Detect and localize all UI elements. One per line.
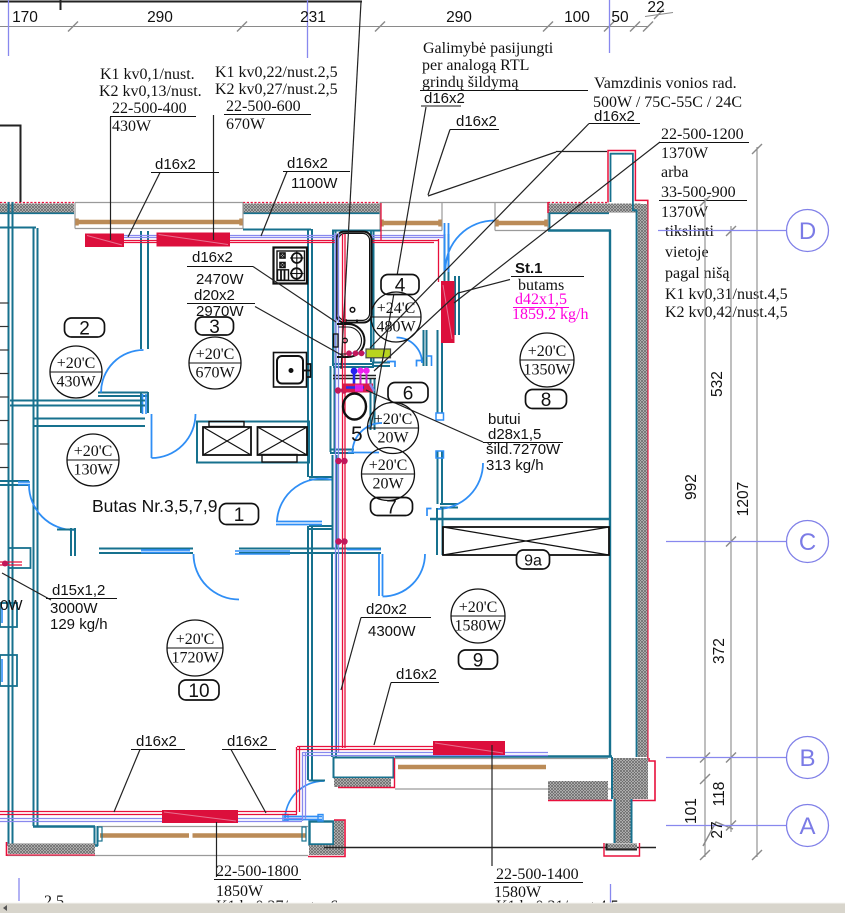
svg-text:K2 kv0,27/nust.2,5: K2 kv0,27/nust.2,5 <box>215 81 338 98</box>
annotation butui <box>486 411 561 474</box>
bottom-right corner block <box>612 758 648 799</box>
room box 9 <box>459 650 498 669</box>
svg-text:C: C <box>799 529 816 556</box>
wc top black lines <box>333 375 376 377</box>
long black line bottom <box>324 847 656 849</box>
svg-text:1859.2 kg/h: 1859.2 kg/h <box>512 306 588 323</box>
svg-text:22-500-600: 22-500-600 <box>226 98 301 115</box>
kitchen sink <box>274 353 311 388</box>
annotation right column <box>661 126 788 321</box>
room8 top inner face <box>548 229 611 231</box>
mid wall right glazing <box>347 549 381 551</box>
svg-text:670W: 670W <box>195 365 235 382</box>
9a crossed box <box>443 527 609 555</box>
corridor entry door (double) <box>151 414 153 458</box>
top wall inner face left <box>0 227 36 229</box>
bottom-right window band <box>395 758 608 760</box>
grid bubble C <box>787 521 829 563</box>
mid wall glazing <box>141 549 190 551</box>
grid bubble lines <box>658 231 786 826</box>
room box 7 <box>371 498 413 516</box>
left edge niches <box>9 548 31 568</box>
svg-text:pagal nišą: pagal nišą <box>665 265 730 282</box>
grid bubble B <box>787 737 829 779</box>
svg-text:290: 290 <box>446 9 472 26</box>
svg-text:grindų šildymą: grindų šildymą <box>422 74 519 91</box>
pipes: bottom runs <box>0 747 505 815</box>
svg-text:1370W: 1370W <box>661 204 709 221</box>
stair treads <box>0 303 9 468</box>
balcony door arc <box>446 221 495 270</box>
svg-text:670W: 670W <box>226 116 266 133</box>
130W room door wall stub <box>0 480 29 482</box>
bottom-left hatch pier <box>8 844 95 855</box>
svg-text:1350W: 1350W <box>523 362 571 379</box>
svg-text:8: 8 <box>541 390 552 411</box>
svg-text:5: 5 <box>351 423 363 446</box>
svg-text:Galimybė pasijungti: Galimybė pasijungti <box>423 40 554 57</box>
corner tip <box>606 844 637 850</box>
svg-text:d16x2: d16x2 <box>227 733 268 750</box>
svg-text:2: 2 <box>79 318 90 339</box>
svg-text:+20'C: +20'C <box>528 343 567 360</box>
pipe junction dots <box>335 387 348 544</box>
bath/wc divider <box>333 363 374 365</box>
grid stub lines top <box>9 0 610 58</box>
svg-text:K1 kv0,1/nust.: K1 kv0,1/nust. <box>100 66 195 83</box>
svg-text:9: 9 <box>473 650 484 671</box>
svg-text:d20x2: d20x2 <box>366 601 407 618</box>
svg-text:430W: 430W <box>56 374 96 391</box>
bottom door (blue) <box>284 816 322 818</box>
X-box frame <box>197 422 309 463</box>
scrollbar strip <box>0 903 845 913</box>
room box 1 <box>220 504 259 525</box>
room4 bottom wall <box>372 362 390 364</box>
svg-text:231: 231 <box>300 9 326 26</box>
130W room door arc <box>29 485 74 530</box>
svg-text:372: 372 <box>711 638 728 664</box>
mid horizontal wall right <box>311 548 381 550</box>
svg-text:1720W: 1720W <box>171 650 219 667</box>
svg-text:d15x1,2: d15x1,2 <box>52 582 105 599</box>
svg-text:118: 118 <box>711 782 728 807</box>
closet X box 2 <box>258 427 308 455</box>
temp circle 1580W <box>451 589 505 643</box>
svg-text:A: A <box>799 813 815 840</box>
svg-text:K2 kv0,42/nust.4,5: K2 kv0,42/nust.4,5 <box>665 304 788 321</box>
svg-text:d16x2: d16x2 <box>456 113 497 130</box>
room7 door arc <box>437 463 483 509</box>
top dimension numbers <box>12 0 665 26</box>
svg-text:101: 101 <box>683 798 700 824</box>
wc cistern (crimson) <box>343 384 373 393</box>
svg-text:33-500-900: 33-500-900 <box>661 184 736 201</box>
svg-text:arba: arba <box>661 164 689 181</box>
svg-text:9a: 9a <box>524 552 542 569</box>
svg-text:22-500-1800: 22-500-1800 <box>216 863 299 880</box>
corridor door threshold (blue) <box>276 521 322 523</box>
top-left black corner leader <box>0 126 21 203</box>
window W1 top-left <box>75 202 243 204</box>
bottom step block <box>310 822 334 845</box>
svg-text:+20'C: +20'C <box>57 355 96 372</box>
svg-text:St.1: St.1 <box>515 260 543 277</box>
shaft/bath left wall <box>332 230 334 366</box>
radiator 22-500-600 <box>157 233 231 247</box>
svg-text:22-500-1200: 22-500-1200 <box>661 126 744 143</box>
closet stub room10 <box>57 529 75 531</box>
bottom blue stubs <box>18 878 20 901</box>
svg-text:d16x2: d16x2 <box>424 90 465 107</box>
room box 8 <box>526 390 567 409</box>
annotation block K1/K2 left <box>99 66 202 135</box>
svg-text:313 kg/h: 313 kg/h <box>486 457 544 474</box>
9a closet left wall <box>436 508 438 555</box>
svg-text:K1 kv0,22/nust.2,5: K1 kv0,22/nust.2,5 <box>215 64 338 81</box>
pipes over bathtub <box>336 233 339 322</box>
temp circle 670W <box>189 337 241 389</box>
top dimension chain <box>0 26 648 28</box>
room box 3 <box>196 317 234 335</box>
corridor niche stubs <box>309 476 333 478</box>
svg-text:4300W: 4300W <box>368 623 416 640</box>
radiator 22-500-1800 <box>162 810 238 823</box>
right exterior wall hatch <box>638 204 648 757</box>
kitchen labels <box>192 249 244 320</box>
svg-text:532: 532 <box>709 371 726 397</box>
svg-text:290: 290 <box>147 9 173 26</box>
svg-text:170: 170 <box>12 9 38 26</box>
d15 labels left <box>50 582 108 633</box>
room8/9 right wall <box>609 230 611 757</box>
room box 9a <box>517 550 550 569</box>
svg-text:992: 992 <box>683 474 700 500</box>
svg-text:per analogą RTL: per analogą RTL <box>422 57 529 74</box>
corner neck <box>615 799 631 843</box>
bottom-left interior face <box>33 825 95 827</box>
svg-text:50: 50 <box>611 9 629 26</box>
svg-text:100: 100 <box>564 9 590 26</box>
svg-text:d20x2: d20x2 <box>194 287 235 304</box>
svg-text:1207: 1207 <box>735 482 752 516</box>
room9 bottom inner face <box>395 755 612 757</box>
svg-text:+20'C: +20'C <box>459 599 498 616</box>
wc bowl <box>343 394 366 420</box>
room2 bottom wall <box>33 418 145 420</box>
svg-text:D: D <box>799 218 816 245</box>
temp circle 20W <box>362 448 415 501</box>
svg-text:3000W: 3000W <box>50 600 98 617</box>
balcony door leaf <box>444 223 446 272</box>
bathtub <box>336 232 371 323</box>
window W2 <box>380 202 442 204</box>
svg-text:22: 22 <box>647 0 664 16</box>
temp circle 130W <box>67 434 119 486</box>
exterior wall top: red face line (dotted) <box>0 202 74 204</box>
svg-text:d16x2: d16x2 <box>396 666 437 683</box>
corridor door arc (room1 side) <box>277 479 333 521</box>
svg-text:šild.7270W: šild.7270W <box>486 441 561 458</box>
temp circle 1720W <box>167 620 223 676</box>
niche rectangle above bottom-right window <box>334 758 394 779</box>
room2 door arc <box>101 350 144 393</box>
bottom labels <box>44 863 619 913</box>
door in mid wall right <box>378 554 380 596</box>
kitchen top inner face <box>243 229 311 231</box>
svg-text:6: 6 <box>403 383 414 404</box>
svg-text:Vamzdinis vonios rad.: Vamzdinis vonios rad. <box>594 75 737 92</box>
grid bubble A <box>787 805 829 847</box>
svg-text:1370W: 1370W <box>661 145 709 162</box>
svg-text:10: 10 <box>188 681 209 702</box>
svg-text:1580W: 1580W <box>454 618 502 635</box>
wc bottom wall <box>330 449 354 451</box>
temp circle 20W <box>368 403 419 454</box>
temp circle 430W <box>50 346 102 398</box>
temp circle 480W <box>371 292 421 342</box>
pipes: center risers <box>336 238 339 752</box>
left exterior wall (double) <box>8 202 10 846</box>
svg-text:K1 kv0,31/nust.4,5: K1 kv0,31/nust.4,5 <box>665 286 788 303</box>
wc valves (lollipops) <box>353 374 356 388</box>
wc door arc <box>353 423 383 453</box>
svg-text:tikslinti: tikslinti <box>665 223 714 240</box>
leader lines (black thin) <box>2 2 660 877</box>
svg-text:+20'C: +20'C <box>374 411 413 428</box>
room4 right wall <box>437 330 439 413</box>
9a top wall <box>430 518 611 520</box>
svg-text:27: 27 <box>709 821 726 838</box>
svg-text:20W: 20W <box>377 430 409 447</box>
wall room2/room3 <box>140 231 142 349</box>
room box 2 <box>65 318 105 337</box>
svg-text:0W: 0W <box>0 597 23 614</box>
svg-text:1: 1 <box>234 505 245 526</box>
svg-text:130W: 130W <box>73 462 113 479</box>
chimney top-right <box>609 204 641 213</box>
annotation block K1/K2 second <box>215 64 338 133</box>
room box 4 <box>381 275 419 295</box>
svg-text:d16x2: d16x2 <box>594 108 635 125</box>
balcony door opening top <box>442 202 495 204</box>
thick wall south face room2 <box>10 400 145 402</box>
bath right wall <box>370 231 372 362</box>
bottom-left window <box>98 826 308 828</box>
pipes: top run periwinkle <box>85 236 444 238</box>
pipes: top run red <box>85 203 439 282</box>
annotation Galimybe <box>422 40 554 91</box>
grid bubble D <box>787 210 829 252</box>
annotation Vamzdinis <box>593 75 742 111</box>
svg-text:+24'C: +24'C <box>377 300 416 317</box>
svg-text:+20'C: +20'C <box>74 443 113 460</box>
room box 10 <box>179 680 219 700</box>
right dim vertical lines <box>705 147 757 857</box>
svg-text:Butas Nr.3,5,7,9: Butas Nr.3,5,7,9 <box>92 496 218 516</box>
svg-text:K2 kv0,13/nust.: K2 kv0,13/nust. <box>99 83 202 100</box>
svg-text:d16x2: d16x2 <box>136 733 177 750</box>
stove <box>274 248 308 284</box>
room box 6 <box>388 383 428 403</box>
mid wall door arc <box>194 554 240 600</box>
svg-text:22-500-400: 22-500-400 <box>112 100 187 117</box>
right dim ticks <box>700 144 762 860</box>
svg-text:480W: 480W <box>376 319 416 336</box>
svg-text:2470W: 2470W <box>196 271 244 288</box>
washbasin <box>337 324 365 357</box>
room4 right wall lower <box>423 330 425 366</box>
svg-text:1100W: 1100W <box>291 175 338 192</box>
svg-text:+20'C: +20'C <box>369 457 408 474</box>
svg-text:+20'C: +20'C <box>196 346 235 363</box>
svg-text:d16x2: d16x2 <box>287 155 328 172</box>
room4 door arc <box>397 338 423 364</box>
radiator 22-500-1400 <box>433 741 505 755</box>
svg-text:d16x2: d16x2 <box>192 249 233 266</box>
svg-text:22-500-1400: 22-500-1400 <box>496 866 579 883</box>
left edge pipe stubs <box>0 561 22 563</box>
towel radiator (lime) <box>366 349 391 358</box>
kitchen right wall / corridor wall <box>307 229 309 477</box>
svg-text:vietoje: vietoje <box>665 244 709 261</box>
svg-text:+20'C: +20'C <box>176 631 215 648</box>
svg-text:20W: 20W <box>372 476 404 493</box>
window W3 <box>495 202 548 204</box>
mid horizontal wall left <box>99 548 193 550</box>
radiator St.1 vertical <box>441 281 455 343</box>
exterior wall top: hatch band <box>0 204 74 213</box>
svg-text:d16x2: d16x2 <box>155 156 196 173</box>
svg-text:2970W: 2970W <box>196 303 244 320</box>
rooms6/7 right wall <box>437 451 439 504</box>
radiator 22-500-400 <box>85 234 124 248</box>
room8 left wall <box>454 276 456 335</box>
closet X box 1 <box>203 427 251 455</box>
bottom-right hatch pier <box>548 781 608 800</box>
svg-text:129 kg/h: 129 kg/h <box>50 616 108 633</box>
svg-text:430W: 430W <box>112 118 152 135</box>
temp circle 1350W <box>520 333 574 387</box>
top sheet border line <box>0 1 362 3</box>
svg-text:B: B <box>799 745 815 772</box>
